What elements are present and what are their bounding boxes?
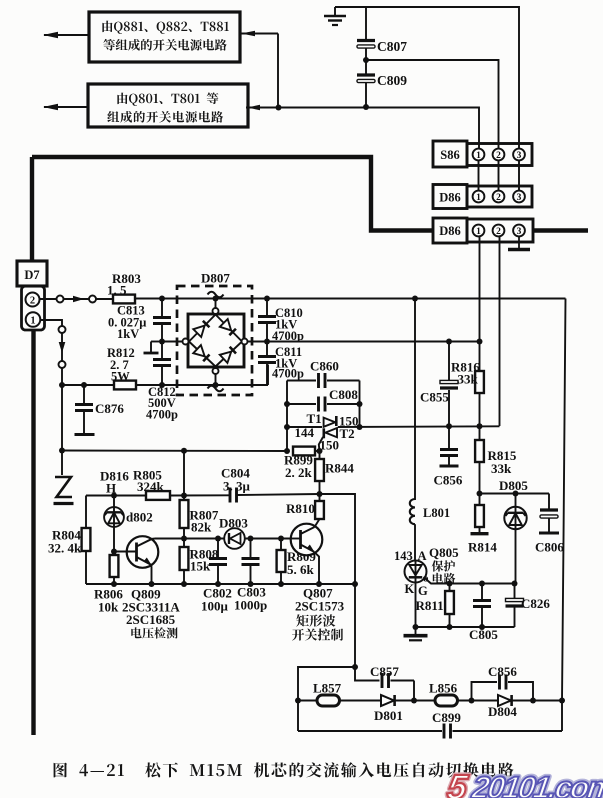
svg-text:R811: R811 xyxy=(416,598,444,613)
bridge top terminal xyxy=(215,299,217,309)
D86 bot pin 2 xyxy=(493,225,505,237)
resistor R808 xyxy=(183,539,185,548)
svg-text:2: 2 xyxy=(496,151,501,161)
capacitor C804 xyxy=(229,488,232,503)
svg-text:10k: 10k xyxy=(98,600,119,615)
inductor L801 xyxy=(410,499,415,524)
label 电压检测 xyxy=(131,627,177,638)
svg-text:2. 2k: 2. 2k xyxy=(285,465,313,480)
jumper contact d xyxy=(59,361,66,368)
svg-text:5W: 5W xyxy=(111,370,130,384)
svg-text:3: 3 xyxy=(517,151,522,161)
node left column - sample wire xyxy=(59,448,65,454)
node rail-x355 xyxy=(352,581,358,587)
thick wire down to D7 xyxy=(30,157,34,262)
svg-text:C860: C860 xyxy=(310,359,339,374)
svg-text:C809: C809 xyxy=(377,73,407,88)
wire rail down to bottom network xyxy=(354,584,356,667)
jumper contact a xyxy=(57,296,64,303)
svg-text:150: 150 xyxy=(320,438,340,453)
label 保护电路 xyxy=(432,560,456,571)
node C811-C860 column xyxy=(286,381,288,452)
resistor R810 xyxy=(319,494,321,501)
svg-text:K: K xyxy=(405,582,415,596)
svg-text:L856: L856 xyxy=(429,681,458,696)
wire box1 to box2 junction xyxy=(277,34,279,108)
bridge diode left-top xyxy=(189,315,216,342)
thyristor Q805 xyxy=(415,560,417,627)
svg-text:S86: S86 xyxy=(440,148,459,162)
svg-text:L857: L857 xyxy=(313,681,342,696)
connector D86 middle xyxy=(433,185,467,209)
wire to left corner xyxy=(298,667,355,731)
arrow out left of box2 xyxy=(44,106,88,108)
capacitor C860 xyxy=(287,380,316,382)
svg-text:C855: C855 xyxy=(420,390,449,405)
D86 mid pin 3 xyxy=(513,191,525,203)
bridge diode top-right xyxy=(216,315,243,342)
DC wire bridge right to pin1 column xyxy=(248,341,480,343)
jumper contact c xyxy=(59,326,66,333)
capacitor C811 xyxy=(266,342,268,356)
capacitor C856 upper xyxy=(448,426,450,448)
jumper link arrow down xyxy=(61,333,63,361)
transistor Q809 xyxy=(127,536,159,568)
wire L801 to Q805 xyxy=(414,524,416,560)
bridge diode bottom-right xyxy=(216,342,243,367)
svg-text:C826: C826 xyxy=(521,596,550,611)
svg-text:D86: D86 xyxy=(439,224,461,238)
sample wire y450 xyxy=(62,450,287,453)
svg-text:1: 1 xyxy=(476,227,481,237)
svg-text:C806: C806 xyxy=(535,540,564,555)
AC tilde top xyxy=(208,292,224,298)
capacitor C855 xyxy=(448,342,450,381)
svg-text:33k: 33k xyxy=(458,372,479,387)
svg-text:C876: C876 xyxy=(95,401,124,416)
capacitor C826 xyxy=(514,584,516,599)
svg-text:T1: T1 xyxy=(307,411,322,426)
capacitor C856 bottom branch xyxy=(472,682,498,701)
bridge left terminal xyxy=(183,339,189,345)
right edge vertical wire xyxy=(562,299,566,732)
wire Q809 collector row xyxy=(155,538,291,540)
resistor R814 xyxy=(479,494,481,506)
svg-text:C857: C857 xyxy=(370,664,399,679)
svg-text:C856: C856 xyxy=(434,473,463,488)
watermark 520101.com xyxy=(445,768,603,803)
svg-text:H: H xyxy=(106,481,116,496)
node D816 H xyxy=(111,493,117,499)
D7 pin 1 xyxy=(26,312,41,327)
wire to R803 xyxy=(96,298,113,300)
wire D86 pin2 down to triac line xyxy=(499,236,501,426)
capacitor C807 xyxy=(357,39,375,42)
diode D804 xyxy=(498,695,511,706)
thick left border down xyxy=(31,329,35,735)
block box2: switching power supply of Q801,T801 xyxy=(88,84,248,127)
wire D86 pin1 down to bridge output xyxy=(479,236,481,341)
resistor R809 xyxy=(280,539,282,551)
node R844 bottom xyxy=(317,491,323,497)
svg-text:D86: D86 xyxy=(439,191,461,205)
wire C860-C808 join xyxy=(359,381,361,428)
resistor R807 xyxy=(180,500,189,528)
resistor R803 xyxy=(113,295,135,304)
inductor L856 xyxy=(435,695,458,706)
wire to S86 pin2 xyxy=(366,60,499,149)
svg-text:143: 143 xyxy=(394,549,413,563)
wire D805 row xyxy=(480,493,550,495)
svg-text:1000p: 1000p xyxy=(234,598,267,613)
surge gap Z xyxy=(61,451,63,476)
svg-text:82k: 82k xyxy=(191,520,212,535)
svg-text:C807: C807 xyxy=(377,39,407,54)
svg-text:C899: C899 xyxy=(432,710,461,725)
node D801-C857 xyxy=(396,700,435,702)
node R803-C813 xyxy=(159,296,165,302)
wire C809 bottom to node xyxy=(365,83,367,108)
node at boxes junction xyxy=(276,105,282,111)
capacitor C802 xyxy=(217,539,219,558)
capacitor C857 xyxy=(381,673,384,688)
capacitor C812 xyxy=(161,342,163,359)
diode D803 xyxy=(224,528,245,549)
triac gate to R899 node xyxy=(319,437,323,451)
wire up to C811 xyxy=(267,365,269,386)
D86 bot pin 3 xyxy=(513,225,525,237)
svg-text:D805: D805 xyxy=(499,478,528,493)
ground symbol R814 xyxy=(471,532,489,535)
svg-text:T2: T2 xyxy=(340,426,355,441)
triac output wire y426 xyxy=(338,425,500,428)
svg-text:d802: d802 xyxy=(126,510,153,525)
jumper link with arrow xyxy=(64,298,90,300)
D86 mid pin 2 xyxy=(493,191,505,203)
svg-text:Q805: Q805 xyxy=(429,545,459,560)
connector D86 bottom xyxy=(433,218,467,243)
capacitor C805 xyxy=(481,584,483,600)
svg-text:2SC1573: 2SC1573 xyxy=(295,599,345,614)
svg-text:4700p: 4700p xyxy=(272,367,304,381)
top wire to S86 pin3 xyxy=(335,7,519,149)
wire D7 pin1 to jumper xyxy=(40,320,62,326)
svg-text:2: 2 xyxy=(496,227,501,237)
node C813-C812 xyxy=(159,339,165,345)
bridge diode left-bottom xyxy=(189,342,216,367)
label 开关控制 xyxy=(292,629,343,641)
triac T1/T2 xyxy=(335,416,338,426)
svg-text:R844: R844 xyxy=(325,461,354,476)
svg-text:1kV: 1kV xyxy=(117,327,139,341)
C857 branch wire xyxy=(355,667,380,681)
thick AC line right of D86 xyxy=(533,228,588,232)
svg-text:1: 1 xyxy=(476,151,481,161)
earth ground top xyxy=(334,7,336,15)
svg-text:15k: 15k xyxy=(190,559,211,574)
arrow out left of box1 xyxy=(44,34,89,36)
wire to triac xyxy=(287,426,322,428)
svg-text:C808: C808 xyxy=(329,387,358,402)
svg-text:D7: D7 xyxy=(24,268,39,282)
connector S86 xyxy=(433,141,467,167)
svg-text:1: 1 xyxy=(30,316,35,327)
resistor R815 xyxy=(479,426,481,440)
svg-text:R810: R810 xyxy=(286,501,315,516)
svg-text:5. 6k: 5. 6k xyxy=(287,562,315,577)
resistor R811 xyxy=(449,584,451,592)
svg-text:D803: D803 xyxy=(219,516,248,531)
svg-text:L801: L801 xyxy=(423,506,450,520)
svg-text:R814: R814 xyxy=(468,540,497,555)
wire C807 top xyxy=(365,7,367,39)
svg-text:3: 3 xyxy=(517,193,522,203)
arrow into box2 right side xyxy=(246,107,278,109)
svg-text:C856: C856 xyxy=(488,664,517,679)
capacitor C876 xyxy=(81,382,87,388)
capacitor C899 row xyxy=(298,730,442,732)
wire to S86 pin1 xyxy=(278,108,479,150)
resistor R805 xyxy=(146,491,170,500)
S86 pin 2 xyxy=(493,149,505,161)
resistor R899 xyxy=(293,447,315,456)
node R815-D805 row xyxy=(477,491,483,497)
wire with chassis tick xyxy=(151,341,162,343)
capacitor C810 xyxy=(264,296,270,302)
svg-text:2: 2 xyxy=(496,193,501,203)
wire D7 pin2 to jumper xyxy=(40,298,57,300)
svg-text:4700p: 4700p xyxy=(272,329,304,343)
capacitor C806 xyxy=(548,494,550,509)
capacitor C803 xyxy=(250,539,252,558)
Q805 gate wire xyxy=(424,577,449,584)
zener diode D805 xyxy=(515,494,517,584)
block box1: switching power supply of Q881,Q882,T881 xyxy=(89,12,240,62)
caption 图4-21 xyxy=(54,762,514,777)
emitter ground rail xyxy=(86,583,355,585)
AC tilde bottom xyxy=(208,386,224,392)
AC top wire to right edge xyxy=(135,298,566,300)
wire D804 to right edge xyxy=(513,700,562,702)
svg-text:o: o xyxy=(423,573,429,585)
svg-text:D807: D807 xyxy=(201,271,230,286)
D7 pin 2 xyxy=(26,293,40,307)
arrow into box1 right side xyxy=(240,33,278,35)
zener diode d802 xyxy=(113,496,115,552)
jumper contact b xyxy=(89,296,96,303)
wire R812 to bridge bottom xyxy=(136,384,268,386)
wire to bridge left terminal xyxy=(162,341,183,343)
thick AC wire top xyxy=(32,157,433,231)
bridge bottom terminal xyxy=(213,368,219,374)
S86 pin 3 xyxy=(513,149,525,161)
transistor Q807 xyxy=(291,524,323,556)
svg-text:2SC1685: 2SC1685 xyxy=(126,612,176,627)
D86 mid pin 1 xyxy=(473,191,485,203)
connector D7 xyxy=(17,261,47,286)
svg-text:D804: D804 xyxy=(488,704,517,719)
svg-text:1. 5: 1. 5 xyxy=(107,283,127,298)
resistor R806 xyxy=(113,552,115,556)
node R899-R844 xyxy=(315,450,320,452)
svg-text:A: A xyxy=(418,549,427,563)
svg-text:G: G xyxy=(418,584,428,598)
S86 pin 1 xyxy=(473,149,485,161)
wire L857 to D801 xyxy=(340,700,382,702)
bridge right terminal xyxy=(242,339,248,345)
capacitor C813 xyxy=(161,299,163,317)
wire L856 to D804 xyxy=(458,700,499,702)
label 矩形波 xyxy=(296,614,335,626)
svg-text:2: 2 xyxy=(30,296,35,307)
inductor L857 xyxy=(298,700,317,702)
svg-text:4700p: 4700p xyxy=(146,408,178,422)
gate line to R811/C805 xyxy=(448,583,515,585)
svg-text:D801: D801 xyxy=(374,708,403,723)
ground rail under Q805 xyxy=(416,626,515,628)
diode D801 xyxy=(381,695,394,706)
wire AC to L801 xyxy=(412,296,418,302)
svg-text:33k: 33k xyxy=(491,461,512,476)
ground symbol Q805 xyxy=(415,627,417,634)
svg-text:100μ: 100μ xyxy=(201,599,229,614)
resistor R816 xyxy=(479,342,481,372)
mating stubs S86-D86 xyxy=(478,161,480,191)
capacitor C808 xyxy=(287,403,316,405)
resistor R844 xyxy=(319,451,321,459)
bridge inner square xyxy=(188,314,244,367)
svg-text:3: 3 xyxy=(517,227,522,237)
wire sub rail xyxy=(86,495,146,497)
svg-text:20101.com: 20101.com xyxy=(469,770,603,798)
svg-text:144: 144 xyxy=(295,425,315,440)
svg-text:32. 4k: 32. 4k xyxy=(48,541,82,556)
svg-text:1: 1 xyxy=(476,193,481,203)
capacitor C809 xyxy=(357,73,375,76)
svg-text:324k: 324k xyxy=(137,479,165,494)
resistor R812 xyxy=(114,381,136,390)
node C807-C809 xyxy=(365,48,367,74)
wire rail R812 row xyxy=(62,384,114,386)
node d802-R806-Q809 base xyxy=(111,549,117,555)
chassis bar under D86 pin3 xyxy=(518,236,520,248)
rectifier D807 dashed box xyxy=(177,286,252,395)
resistor R804 xyxy=(85,496,87,529)
node sample-R807 column xyxy=(181,493,187,499)
wire down left column xyxy=(61,368,63,451)
svg-text:3. 3μ: 3. 3μ xyxy=(223,479,251,494)
D86 bot pin 1 xyxy=(473,225,485,237)
